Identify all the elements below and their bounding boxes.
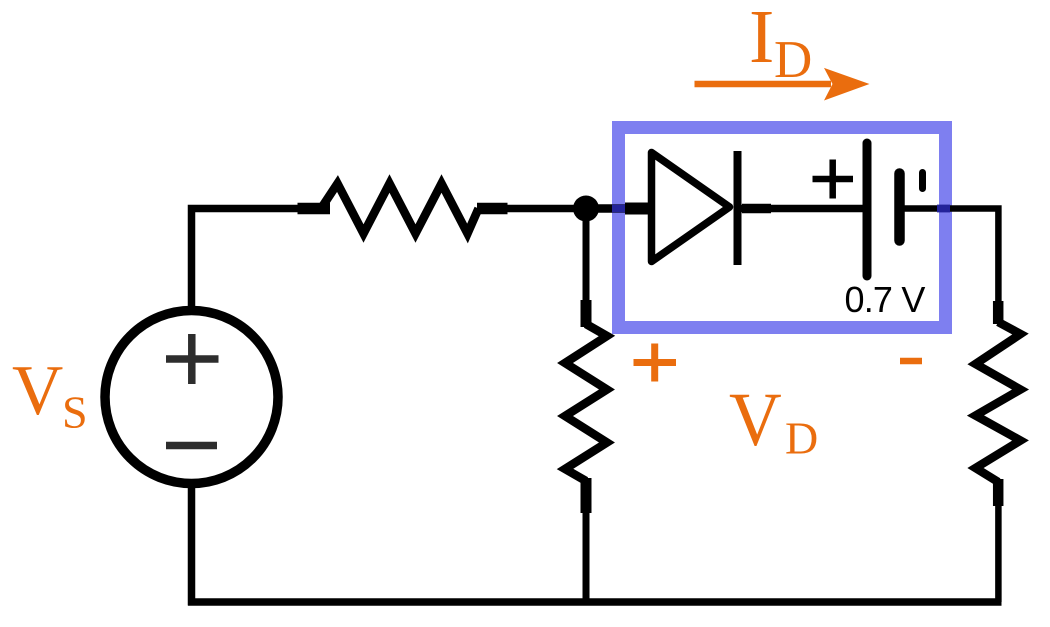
VD plus sign: [634, 344, 677, 382]
wire crossing left of box (navy blend): [612, 205, 625, 213]
diode model box: [619, 128, 946, 328]
wire diode D1 to battery: [741, 205, 867, 213]
svg-text:V: V: [12, 352, 63, 430]
node A (junction dot): [573, 196, 599, 222]
wire crossing right of box (navy blend): [937, 205, 950, 213]
wire top-left (source top to resistor R1): [192, 209, 299, 307]
wire resistor R2 to bottom rail: [583, 512, 590, 602]
voltage source VS minus sign: [166, 442, 217, 450]
wire battery to right branch: [903, 209, 998, 304]
VD minus sign: [900, 358, 922, 365]
diode D1 triangle: [652, 153, 730, 262]
diode D1 cathode bar: [734, 151, 742, 265]
resistor R2 leads: [581, 300, 592, 513]
current arrow ID: [695, 81, 832, 88]
svg-text:D: D: [774, 31, 812, 89]
wire resistor R1 to node A: [507, 205, 586, 213]
wire resistor R3 to bottom rail: [995, 504, 1002, 602]
svg-text:0.7 V: 0.7 V: [845, 279, 926, 320]
resistor R1 (horizontal zigzag): [321, 184, 479, 234]
svg-text:V: V: [729, 379, 782, 463]
svg-text:I: I: [749, 0, 774, 79]
resistor R3 leads: [993, 301, 1004, 506]
resistor R2 (middle vertical zigzag): [565, 324, 607, 481]
diode D1 lead stubs: [625, 203, 650, 215]
voltage source VS plus sign: [166, 334, 219, 384]
resistor R1 leads: [298, 203, 508, 215]
wire bottom rail: [188, 488, 1002, 606]
voltage source VS circle: [105, 311, 278, 484]
battery short plate (negative): [894, 174, 905, 241]
battery long plate (positive): [863, 143, 872, 276]
wire node A to diode D1: [586, 204, 652, 213]
battery tick mark: [919, 173, 926, 189]
svg-text:D: D: [785, 413, 818, 464]
svg-text:S: S: [62, 387, 88, 438]
resistor R3 (right vertical zigzag): [976, 322, 1021, 482]
wire node A down to resistor R2: [583, 209, 590, 303]
battery plus sign: [813, 160, 854, 199]
